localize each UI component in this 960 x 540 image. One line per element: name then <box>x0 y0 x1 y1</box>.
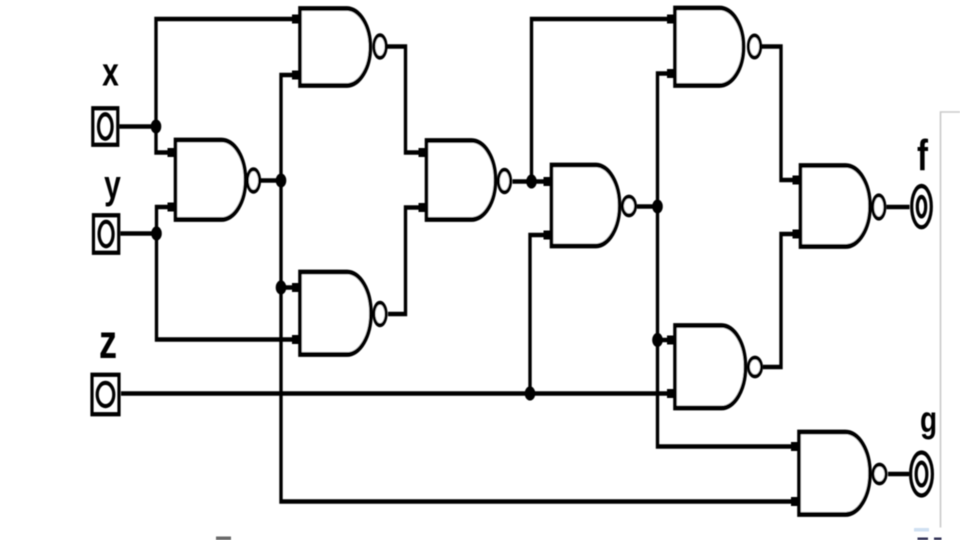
pin stub U9 pin2 <box>791 497 800 506</box>
wire node C to U5 pin1 <box>532 180 552 183</box>
wire node F to U8 pin1 <box>658 338 675 341</box>
wire U7 output to port f <box>887 205 910 208</box>
wire z input long run to U8 pin2 <box>121 392 675 395</box>
svg-text:z: z <box>99 315 117 368</box>
wire U2 output down to U4 pin1 <box>387 47 426 153</box>
wire U6 output down to U7 pin1 <box>762 47 801 180</box>
wire node B to U3 pin1 <box>281 286 299 289</box>
NAND gate U6 bubble <box>748 36 760 58</box>
node x junction <box>151 119 162 133</box>
wire node C up / top run to U6 pin1 <box>532 19 675 181</box>
wire U9 output to port g <box>888 472 909 475</box>
NAND gate U6 body <box>675 8 744 85</box>
pin stub U2 pin2 <box>292 71 301 80</box>
pin stub U3 pin1 <box>292 283 301 292</box>
pin stub U5 pin1 <box>544 177 553 186</box>
cut-off blue text 24 bottom right <box>914 528 929 532</box>
node y junction <box>151 226 162 240</box>
wire node D up to U5 pin2 <box>530 235 551 393</box>
NAND gate U4 body <box>427 141 496 220</box>
NAND gate U5 bubble <box>623 197 636 216</box>
NAND gate U1 bubble <box>247 169 259 191</box>
node B junction <box>276 280 287 294</box>
wire U8 output up to U7 pin2 <box>763 234 800 367</box>
NAND gate U2 body <box>300 9 370 86</box>
NAND gate U9 body <box>799 432 870 515</box>
wire y input to node y <box>121 232 157 235</box>
wire node E up to U6 pin2 <box>658 73 675 206</box>
input port x <box>93 108 118 145</box>
input port z <box>92 375 119 414</box>
wire U3 output up to U4 pin2 <box>388 207 426 314</box>
pin stub U3 pin2 <box>292 335 301 344</box>
wire U4 output to node C <box>513 180 532 183</box>
wire x input to node x <box>120 125 157 128</box>
NAND gate U3 body <box>300 272 371 355</box>
NAND gate U9 bubble <box>873 465 886 484</box>
pin stub U4 pin2 <box>419 203 428 212</box>
cut-off letter bottom left <box>216 537 231 540</box>
input port y <box>93 215 118 252</box>
NAND gate U5 body <box>552 165 620 246</box>
NAND gate U4 bubble <box>498 170 510 192</box>
pin stub U6 pin1 <box>667 15 676 24</box>
NAND gate U2 bubble <box>374 35 386 57</box>
pin stub U7 pin2 <box>793 229 802 238</box>
NAND gate U3 bubble <box>374 303 386 325</box>
wire U5 output to node E <box>637 205 658 208</box>
wire node y down to U3 pin2 <box>157 233 300 339</box>
wire node x up / top run to U2 pin1 <box>156 19 299 127</box>
pin stub U1 pin1 <box>168 148 177 157</box>
pin stub U1 pin2 <box>168 203 177 212</box>
pin stub U8 pin1 <box>667 335 676 344</box>
NAND gate U7 body <box>801 165 871 246</box>
node D junction <box>525 386 536 400</box>
svg-text:x: x <box>102 51 119 95</box>
NAND gate U8 body <box>675 325 746 408</box>
wire node E down to U9 pin1 <box>658 207 800 447</box>
wire U1 output to node A <box>261 179 282 182</box>
pin stub U5 pin2 <box>544 231 553 240</box>
wire node y up to U1 pin2 <box>157 207 177 233</box>
node C junction <box>526 174 537 188</box>
output port f <box>912 186 932 227</box>
node F junction <box>652 333 663 347</box>
pin stub U8 pin2 <box>667 389 676 398</box>
wire node A up to U2 pin2 <box>281 75 299 181</box>
svg-text:f: f <box>917 132 929 181</box>
pin stub U9 pin1 <box>791 442 800 451</box>
node A junction <box>276 173 287 187</box>
svg-text:y: y <box>104 163 121 207</box>
pin stub U6 pin2 <box>667 69 676 78</box>
pin stub U2 pin1 <box>292 15 301 24</box>
NAND gate U8 bubble <box>749 358 762 377</box>
wire node x down to U1 pin1 <box>156 127 176 153</box>
page border (light gray) <box>941 112 960 528</box>
pin stub U7 pin1 <box>793 175 802 184</box>
pin stub U4 pin1 <box>419 148 428 157</box>
NAND gate U1 body <box>176 140 246 219</box>
svg-text:g: g <box>920 398 937 440</box>
NAND gate U7 bubble <box>873 195 885 218</box>
node E junction <box>652 199 663 213</box>
wire node A down, bottom run to U9 pin2 <box>281 181 799 502</box>
output port g <box>911 453 933 496</box>
